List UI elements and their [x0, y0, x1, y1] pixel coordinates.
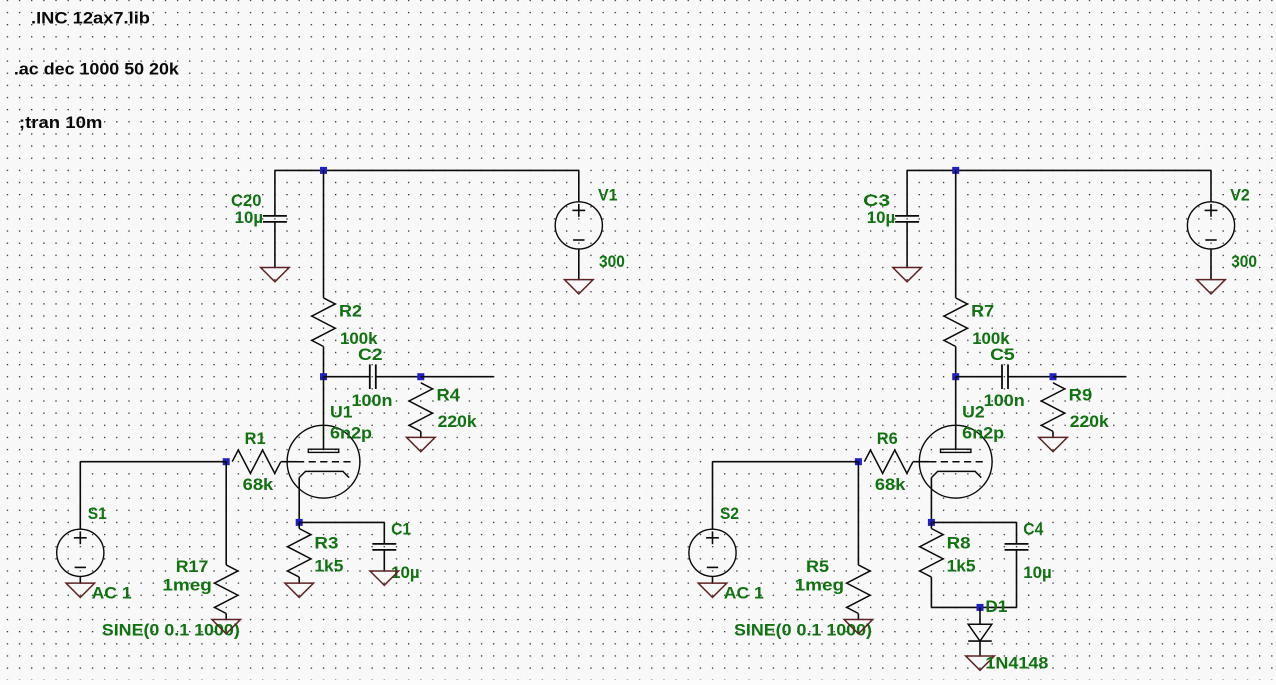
wire C2 to out node: [376, 376, 421, 378]
svg-text:;tran 10m: ;tran 10m: [19, 113, 103, 132]
node B+ junction stage2: [952, 167, 959, 174]
label C3 value 10µ: [867, 208, 896, 227]
label C5 value 100n: [984, 391, 1025, 410]
wire S2 bottom lead: [712, 576, 714, 583]
label R6 value 68k: [875, 475, 906, 494]
svg-text:68k: 68k: [875, 475, 906, 494]
label C5: [990, 345, 1015, 364]
wire cathode lead U2: [930, 478, 932, 523]
wire R3 lower lead: [298, 577, 300, 583]
svg-text:R6: R6: [877, 429, 898, 448]
svg-text:R2: R2: [339, 302, 362, 321]
resistor R9: [1041, 383, 1064, 432]
wire anode lead U1: [323, 377, 325, 450]
wire R8 lower lead: [930, 577, 932, 583]
resistor R17: [215, 565, 238, 614]
wire C4 to bottom rail: [1016, 571, 1018, 607]
wire C20 bottom lead: [274, 222, 276, 268]
svg-text:10µ: 10µ: [391, 563, 420, 582]
ground under S1: [66, 583, 95, 597]
wire S1 top lead: [79, 462, 81, 530]
svg-text:R17: R17: [176, 557, 209, 576]
node grid junction stage2: [855, 458, 862, 465]
wire S1 bottom lead: [79, 576, 81, 583]
label V2: [1230, 185, 1250, 204]
resistor R3: [288, 529, 311, 578]
wire R9 lower lead: [1052, 431, 1054, 437]
diode D1 cathode bar: [968, 640, 992, 642]
triode U2 cathode: [931, 471, 981, 477]
signal source S2: [689, 529, 736, 576]
wire rail to R7: [955, 170, 957, 298]
wire cathode lead U1: [298, 478, 300, 523]
capacitor C4: [1005, 544, 1029, 550]
label S1: [88, 504, 107, 523]
svg-text:V2: V2: [1230, 185, 1250, 204]
label R2 value 100k: [340, 329, 378, 348]
wire R17 lower lead: [225, 614, 227, 620]
wire R4 lower lead: [420, 431, 422, 437]
label R1: [245, 429, 266, 448]
wire R6 to grid: [913, 461, 919, 463]
label D1 value 1N4148: [985, 653, 1048, 672]
label U1 value 6n2p: [330, 424, 372, 443]
label R7: [971, 302, 994, 321]
svg-text:1meg: 1meg: [795, 576, 845, 595]
wire top rail stage2: [907, 169, 1211, 171]
wire C4 upper lead: [1016, 522, 1018, 544]
label S2 SINE: [734, 621, 872, 640]
wire C5 to out node: [1008, 376, 1053, 378]
node cathode junction stage2: [928, 519, 935, 526]
triode U1 anode plate: [308, 449, 338, 452]
wire V+ lead stage2: [1210, 170, 1212, 202]
wire D1 cathode lead: [979, 641, 981, 656]
wire C1 lower lead: [383, 550, 385, 571]
wire V- lead stage1: [578, 249, 580, 280]
svg-text:C4: C4: [1023, 520, 1043, 539]
label V1 value 300: [599, 252, 625, 271]
signal source S1: [57, 529, 104, 576]
svg-text:R9: R9: [1069, 386, 1093, 405]
node out junction stage1: [417, 373, 424, 380]
wire cathode node to C1: [299, 521, 384, 523]
wire grid node to R5: [857, 462, 859, 565]
wire C20 top lead: [274, 170, 276, 216]
wire out stub stage1: [421, 376, 494, 378]
wire cathode node to C4: [931, 521, 1016, 523]
svg-text:C5: C5: [990, 345, 1015, 364]
label C1 value 10µ: [391, 563, 420, 582]
ground under R17: [212, 620, 241, 634]
label D1: [985, 597, 1007, 616]
resistor R1: [232, 450, 281, 473]
label C4: [1023, 520, 1043, 539]
triode U1 grid stub: [287, 461, 297, 463]
triode U1 envelope: [287, 425, 360, 498]
label C4 value 10µ: [1023, 563, 1052, 582]
wire top rail stage1: [275, 169, 579, 171]
svg-text:10µ: 10µ: [235, 208, 264, 227]
resistor R7: [944, 298, 967, 347]
node cathode junction stage1: [296, 519, 303, 526]
resistor R2: [312, 298, 335, 347]
wire R7 to anode node: [955, 347, 957, 377]
svg-text:C2: C2: [358, 345, 383, 364]
capacitor C20: [263, 216, 287, 222]
capacitor C2: [370, 364, 376, 389]
svg-text:300: 300: [1231, 252, 1257, 271]
wire D1 anode lead: [979, 607, 981, 624]
label U2: [962, 402, 985, 421]
resistor R4: [409, 383, 432, 432]
label S2: [720, 504, 739, 523]
wire input stage2: [713, 461, 859, 463]
triode U2 grid dashes: [929, 461, 985, 463]
wire C1 upper lead: [383, 522, 385, 544]
triode U2 anode plate: [941, 449, 971, 452]
wire out stub stage2: [1053, 376, 1126, 378]
label R1 value 68k: [243, 475, 274, 494]
svg-text:6n2p: 6n2p: [330, 424, 372, 443]
svg-text:D1: D1: [985, 597, 1007, 616]
svg-text:V1: V1: [598, 185, 618, 204]
label U1: [330, 402, 353, 421]
svg-text:S2: S2: [720, 504, 739, 523]
svg-text:AC 1: AC 1: [92, 584, 132, 603]
ground under C1: [370, 571, 399, 585]
svg-text:SINE(0 0.1 1000): SINE(0 0.1 1000): [102, 621, 240, 640]
resistor R8: [920, 529, 943, 578]
label R2: [339, 302, 362, 321]
label R6: [877, 429, 898, 448]
triode U1 grid dashes: [297, 461, 353, 463]
wire grid node to R17: [225, 462, 227, 565]
directive ;tran: [19, 113, 103, 132]
label R3 value 1k5: [314, 557, 343, 576]
ground under S2: [698, 583, 727, 597]
label R5 value 1meg: [795, 576, 845, 595]
directive .INC: [31, 9, 150, 28]
wire rail to R2: [323, 170, 325, 298]
svg-text:10µ: 10µ: [1023, 563, 1052, 582]
voltage source V2: [1187, 202, 1234, 249]
ground under R4: [407, 437, 436, 451]
svg-text:C1: C1: [391, 520, 411, 539]
ground under R9: [1039, 437, 1068, 451]
label R4 value 220k: [438, 412, 478, 431]
svg-text:R4: R4: [437, 386, 461, 405]
svg-text:.INC 12ax7.lib: .INC 12ax7.lib: [31, 9, 150, 28]
label R3: [314, 534, 338, 553]
label R9 value 220k: [1070, 412, 1110, 431]
svg-text:1meg: 1meg: [162, 576, 212, 595]
svg-text:AC 1: AC 1: [724, 584, 764, 603]
svg-text:SINE(0 0.1 1000): SINE(0 0.1 1000): [734, 621, 872, 640]
node grid junction stage1: [223, 458, 230, 465]
ground under D1: [966, 656, 995, 670]
label C2: [358, 345, 383, 364]
svg-text:220k: 220k: [438, 412, 478, 431]
svg-text:1k5: 1k5: [947, 557, 976, 576]
svg-text:68k: 68k: [243, 475, 274, 494]
wire S2 top lead: [712, 462, 714, 530]
svg-text:1N4148: 1N4148: [985, 653, 1048, 672]
wire C3 bottom lead: [906, 222, 908, 268]
svg-text:220k: 220k: [1070, 412, 1110, 431]
resistor R5: [847, 565, 870, 614]
triode U2 envelope: [919, 425, 992, 498]
wire input stage1: [80, 461, 226, 463]
svg-text:U2: U2: [962, 402, 985, 421]
diode D1 triangle: [968, 624, 992, 641]
svg-text:1k5: 1k5: [314, 557, 343, 576]
label R4: [437, 386, 461, 405]
label R5: [806, 557, 829, 576]
label R7 value 100k: [972, 329, 1010, 348]
wire R1 to grid: [281, 461, 287, 463]
node anode junction stage2: [952, 373, 959, 380]
resistor R6: [864, 450, 913, 473]
svg-text:100n: 100n: [984, 391, 1025, 410]
ground under R3: [285, 583, 314, 597]
svg-text:100n: 100n: [352, 391, 393, 410]
capacitor C5: [1002, 364, 1008, 389]
wire anode to C2: [324, 376, 370, 378]
directive .ac: [14, 59, 180, 78]
wire anode to C5: [956, 376, 1002, 378]
label R17 value 1meg: [162, 576, 212, 595]
svg-text:R3: R3: [314, 534, 338, 553]
label S1 value AC 1: [92, 584, 132, 603]
voltage source V1: [555, 202, 602, 249]
wire C4 lower lead: [1016, 550, 1018, 571]
wire R3 upper lead: [298, 522, 300, 528]
label R8 value 1k5: [947, 557, 976, 576]
svg-text:.ac dec 1000 50 20k: .ac dec 1000 50 20k: [14, 59, 180, 78]
svg-text:U1: U1: [330, 402, 353, 421]
svg-text:R5: R5: [806, 557, 829, 576]
label S2 value AC 1: [724, 584, 764, 603]
label U2 value 6n2p: [962, 424, 1004, 443]
triode U2 grid stub: [919, 461, 929, 463]
ground under C3: [893, 268, 922, 282]
wire C3 top lead: [906, 170, 908, 216]
wire R8 to bottom rail: [930, 583, 932, 607]
capacitor C1: [372, 544, 396, 550]
ground under V2: [1197, 280, 1226, 294]
label R8: [947, 534, 971, 553]
label C2 value 100n: [352, 391, 393, 410]
wire R8 upper lead: [930, 522, 932, 528]
svg-text:10µ: 10µ: [867, 208, 896, 227]
svg-text:R7: R7: [971, 302, 994, 321]
node anode junction stage1: [320, 373, 327, 380]
node D1 junction: [977, 604, 984, 611]
wire bottom rail stage2: [931, 606, 1016, 608]
label S1 SINE: [102, 621, 240, 640]
label R17: [176, 557, 209, 576]
node out junction stage2: [1050, 373, 1057, 380]
ground under R5: [844, 620, 873, 634]
label V1: [598, 185, 618, 204]
svg-text:R8: R8: [947, 534, 971, 553]
wire R5 lower lead: [857, 614, 859, 620]
label V2 value 300: [1231, 252, 1257, 271]
triode U1 cathode: [299, 471, 349, 477]
svg-text:S1: S1: [88, 504, 107, 523]
label R9: [1069, 386, 1093, 405]
wire V- lead stage2: [1210, 249, 1212, 280]
node B+ junction stage1: [320, 167, 327, 174]
capacitor C3: [895, 216, 919, 222]
label C1: [391, 520, 411, 539]
ground under C20: [261, 268, 290, 282]
wire V+ lead stage1: [578, 170, 580, 202]
label C3: [863, 191, 890, 210]
label C20 value 10µ: [235, 208, 264, 227]
label C20: [231, 191, 262, 210]
svg-text:300: 300: [599, 252, 625, 271]
wire anode lead U2: [955, 377, 957, 450]
wire R2 to anode node: [323, 347, 325, 377]
ground under V1: [565, 280, 594, 294]
svg-text:6n2p: 6n2p: [962, 424, 1004, 443]
svg-text:R1: R1: [245, 429, 266, 448]
